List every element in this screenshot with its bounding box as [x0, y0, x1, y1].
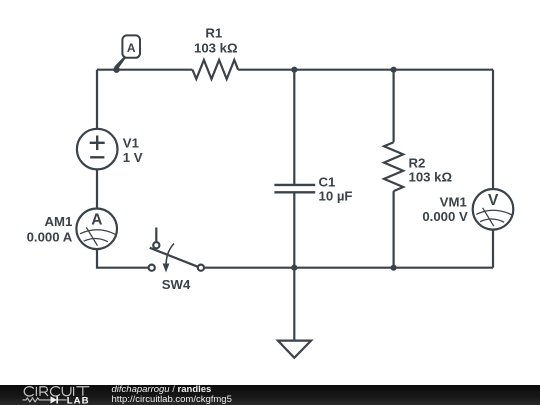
svg-text:R1: R1	[205, 26, 222, 41]
wire C1 top vertical	[293, 70, 295, 185]
wire right vertical bottom	[492, 229, 494, 267]
svg-text:R2: R2	[409, 155, 426, 170]
junction bottom R2	[391, 265, 397, 271]
svg-text:103 kΩ: 103 kΩ	[409, 170, 453, 185]
svg-text:1 V: 1 V	[123, 150, 143, 165]
voltage source V1	[77, 129, 118, 170]
resistor R2	[384, 142, 403, 191]
junction node A dot	[113, 67, 119, 73]
svg-text:0.000 A: 0.000 A	[27, 230, 73, 245]
svg-text:LAB: LAB	[67, 395, 90, 405]
wire ground vertical	[293, 268, 295, 341]
svg-text:V: V	[488, 192, 499, 209]
junction top R2	[391, 67, 397, 73]
wire R2 bottom vertical	[393, 191, 395, 268]
svg-text:10 µF: 10 µF	[319, 188, 353, 203]
CircuitLab logo	[0, 385, 110, 405]
svg-text:A: A	[91, 212, 102, 229]
node label A flag	[116, 35, 141, 68]
wire right vertical top	[492, 70, 494, 190]
svg-text:SW4: SW4	[162, 277, 191, 292]
footer credit line	[112, 385, 232, 405]
wire top-left horizontal segment	[97, 69, 193, 71]
wire C1 bottom vertical	[293, 192, 295, 267]
footer bar	[0, 385, 540, 405]
svg-text:AM1: AM1	[44, 214, 72, 229]
ground symbol	[278, 341, 311, 358]
wire left vertical (node A to V1)	[96, 70, 98, 129]
svg-text:0.000 V: 0.000 V	[422, 209, 468, 224]
svg-text:C1: C1	[319, 175, 336, 190]
svg-text:103 kΩ: 103 kΩ	[194, 41, 238, 56]
junction bottom C1	[291, 265, 297, 271]
wire R2 top vertical	[393, 70, 395, 143]
switch SW4	[149, 228, 204, 273]
ammeter AM1	[76, 209, 117, 250]
wire AM1 to bottom-left corner	[97, 249, 149, 268]
wire bottom horizontal	[204, 267, 493, 269]
voltmeter VM1	[473, 189, 514, 230]
junction top C1	[291, 67, 297, 73]
svg-text:VM1: VM1	[440, 195, 467, 210]
wire top-right horizontal segment	[238, 69, 493, 71]
capacitor C1	[274, 185, 315, 192]
resistor R1	[193, 60, 239, 79]
wire V1 to AM1	[96, 169, 98, 208]
svg-text:A: A	[127, 41, 136, 55]
svg-text:V1: V1	[123, 135, 139, 150]
